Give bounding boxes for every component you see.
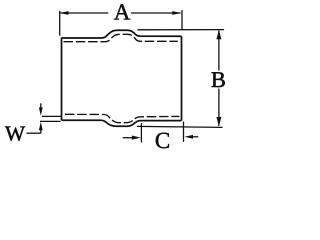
dimension A line right segment: [131, 12, 181, 14]
arrowhead W upper (points down): [39, 107, 43, 115]
wire top bore dashed: [64, 34, 178, 41]
svg-text:B: B: [211, 67, 226, 92]
dimension W extension line lower: [40, 120, 61, 122]
dimension C extension line right: [183, 122, 185, 142]
arrowhead B top: [216, 30, 221, 39]
dimension C line right segment (arrow tail): [192, 136, 199, 138]
wire right end face: [181, 36, 183, 120]
dimension B extension line top: [138, 29, 225, 31]
arrowhead C right: [184, 135, 193, 139]
arrowhead W lower (points up): [39, 122, 43, 130]
arrowhead B bottom: [216, 117, 221, 126]
svg-text:C: C: [155, 128, 170, 153]
dimension B extension line bottom: [137, 126, 223, 127]
dimension C line left segment (arrow tail): [123, 137, 132, 139]
dimension W line upper segment: [40, 103, 42, 108]
dimension A extension line left: [59, 11, 61, 36]
svg-text:W: W: [5, 122, 26, 146]
dimension B line upper segment: [218, 30, 220, 70]
leader to W label: [27, 132, 41, 134]
inner bore hidden lines (dashed): [64, 34, 180, 122]
wire top edge with center bead: [62, 30, 182, 38]
dimension A line left segment: [61, 12, 109, 14]
dimension W line lower segment: [40, 129, 42, 133]
dimension A extension line right: [181, 10, 183, 30]
arrowhead C left: [132, 136, 141, 140]
coupling body outline: [62, 30, 182, 126]
arrowhead A left: [60, 11, 69, 15]
arrowhead A right: [172, 11, 181, 15]
wire bottom bore dashed: [65, 114, 180, 122]
dimension C extension line left: [140, 123, 142, 142]
wire left end face: [61, 38, 63, 120]
wire bottom edge with center bead: [62, 120, 182, 126]
dimension W extension line upper: [42, 115, 61, 117]
dimension B line lower segment: [218, 89, 220, 126]
svg-text:A: A: [114, 0, 131, 25]
